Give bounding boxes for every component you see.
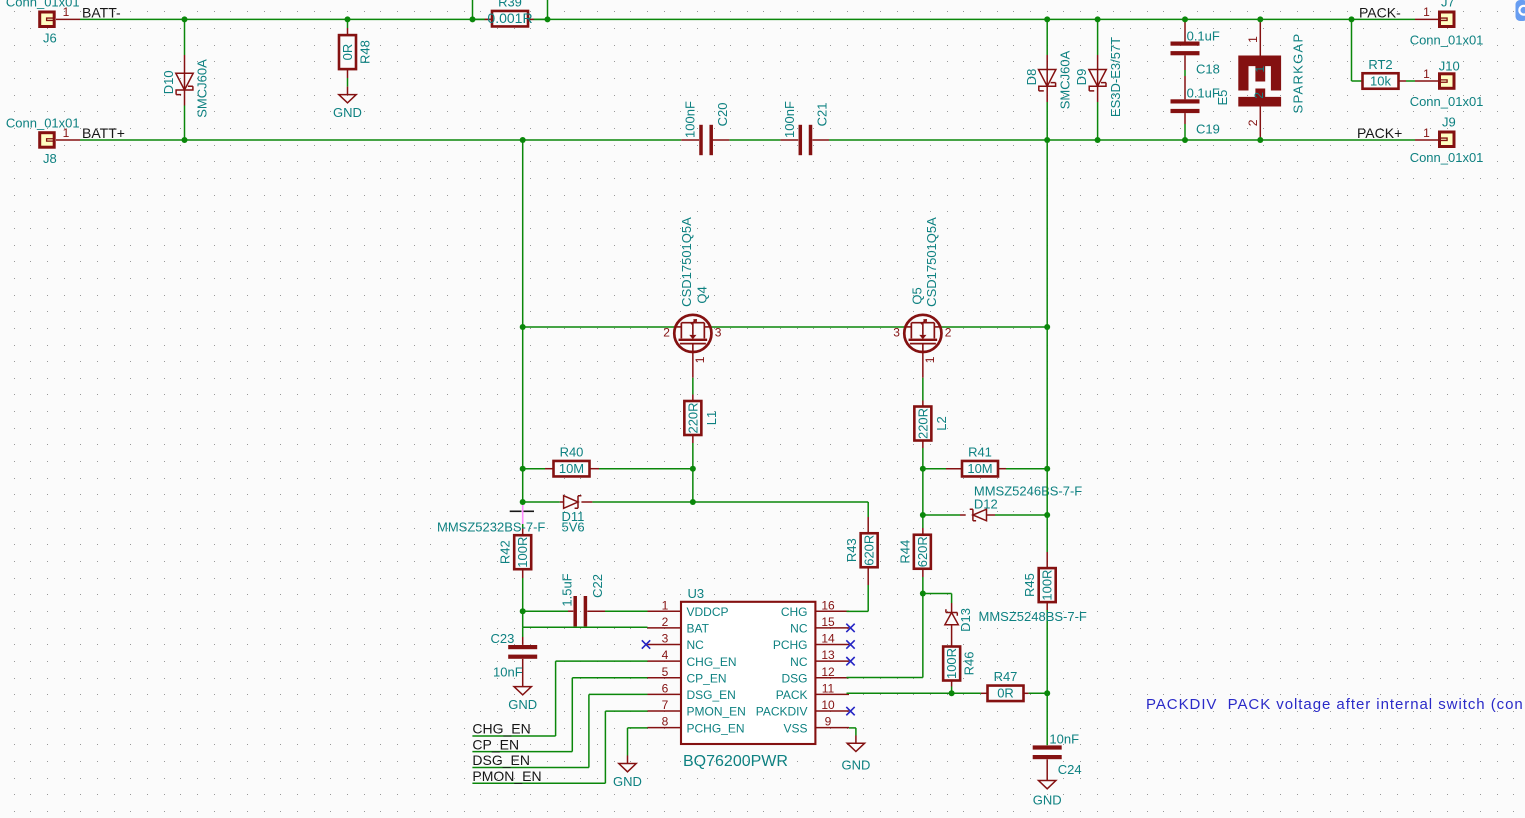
svg-text:13: 13 <box>821 648 835 662</box>
svg-text:1: 1 <box>63 126 70 140</box>
svg-text:CSD17501Q5A: CSD17501Q5A <box>679 217 694 307</box>
svg-text:C19: C19 <box>1196 121 1220 136</box>
svg-text:4: 4 <box>662 648 669 662</box>
svg-text:Q5: Q5 <box>909 287 924 304</box>
svg-text:J7: J7 <box>1441 0 1455 10</box>
svg-text:1: 1 <box>923 356 937 363</box>
svg-text:5V6: 5V6 <box>562 520 585 535</box>
svg-text:10: 10 <box>821 698 835 712</box>
svg-text:D9: D9 <box>1074 69 1089 86</box>
svg-text:SPARKGAP: SPARKGAP <box>1290 33 1305 114</box>
svg-text:10M: 10M <box>967 461 992 476</box>
svg-text:BAT: BAT <box>687 622 710 636</box>
svg-text:BQ76200PWR: BQ76200PWR <box>683 753 788 770</box>
svg-text:DSG: DSG <box>781 671 807 685</box>
svg-text:1: 1 <box>662 598 669 612</box>
svg-text:1: 1 <box>1423 126 1430 140</box>
svg-text:DSG_EN: DSG_EN <box>687 688 736 702</box>
svg-text:16: 16 <box>821 598 835 612</box>
svg-text:0.001R: 0.001R <box>487 10 532 26</box>
svg-text:R44: R44 <box>897 540 912 564</box>
svg-text:J8: J8 <box>43 151 57 166</box>
svg-text:R42: R42 <box>498 540 513 564</box>
svg-text:Conn_01x01: Conn_01x01 <box>1410 94 1484 109</box>
svg-text:15: 15 <box>821 615 835 629</box>
svg-text:NC: NC <box>790 655 808 669</box>
svg-text:1: 1 <box>1246 36 1260 43</box>
svg-text:CSD17501Q5A: CSD17501Q5A <box>924 217 939 307</box>
svg-text:10nF: 10nF <box>493 664 523 679</box>
svg-text:0.1uF: 0.1uF <box>1187 29 1220 44</box>
svg-text:GND: GND <box>333 105 362 120</box>
svg-text:7: 7 <box>662 698 669 712</box>
svg-text:620R: 620R <box>862 535 877 566</box>
svg-text:CP_EN: CP_EN <box>687 671 727 685</box>
svg-text:PCHG_EN: PCHG_EN <box>687 721 745 735</box>
svg-text:3: 3 <box>715 326 722 340</box>
svg-text:DSG_EN: DSG_EN <box>472 752 530 768</box>
svg-text:1: 1 <box>1423 67 1430 81</box>
svg-text:1: 1 <box>693 356 707 363</box>
svg-text:5: 5 <box>662 665 669 679</box>
svg-text:R41: R41 <box>968 445 992 460</box>
svg-text:L1: L1 <box>704 411 719 425</box>
svg-text:D13: D13 <box>958 608 973 632</box>
svg-text:PACK: PACK <box>776 688 808 702</box>
svg-text:J10: J10 <box>1439 59 1460 74</box>
svg-text:ES3D-E3/57T: ES3D-E3/57T <box>1108 37 1123 117</box>
svg-text:2: 2 <box>1246 119 1260 126</box>
svg-text:C20: C20 <box>715 103 730 127</box>
svg-text:R39: R39 <box>498 0 522 10</box>
svg-text:14: 14 <box>821 632 835 646</box>
svg-text:R40: R40 <box>560 445 584 460</box>
svg-text:PCHG: PCHG <box>773 638 808 652</box>
svg-text:Conn_01x01: Conn_01x01 <box>1410 32 1484 47</box>
svg-text:MMSZ5232BS-7-F: MMSZ5232BS-7-F <box>437 520 545 535</box>
svg-text:1: 1 <box>63 5 70 19</box>
svg-text:10k: 10k <box>1370 73 1391 88</box>
svg-text:3: 3 <box>893 326 900 340</box>
svg-text:PACK+: PACK+ <box>1357 125 1402 141</box>
svg-text:SMCJ60A: SMCJ60A <box>1058 50 1073 109</box>
svg-text:VDDCP: VDDCP <box>687 605 729 619</box>
svg-text:2: 2 <box>663 326 670 340</box>
svg-text:C18: C18 <box>1196 61 1220 76</box>
svg-text:NC: NC <box>790 622 808 636</box>
svg-text:3: 3 <box>662 632 669 646</box>
svg-text:D8: D8 <box>1024 69 1039 86</box>
svg-text:C21: C21 <box>815 103 830 127</box>
svg-text:PACK-: PACK- <box>1359 4 1401 20</box>
svg-text:1.5uF: 1.5uF <box>560 573 575 606</box>
svg-text:C23: C23 <box>491 631 515 646</box>
svg-text:9: 9 <box>825 715 832 729</box>
svg-text:11: 11 <box>822 681 835 695</box>
svg-text:Q4: Q4 <box>694 286 709 303</box>
svg-text:PACKDIV PACK voltage after in: PACKDIV PACK voltage after internal swit… <box>1146 696 1524 713</box>
svg-text:2: 2 <box>1252 92 1266 99</box>
svg-text:CHG_EN: CHG_EN <box>687 655 737 669</box>
svg-text:D10: D10 <box>161 70 176 94</box>
svg-text:10M: 10M <box>559 461 584 476</box>
svg-text:VSS: VSS <box>783 721 807 735</box>
svg-text:GND: GND <box>508 697 537 712</box>
svg-text:J6: J6 <box>43 30 57 45</box>
svg-text:0R: 0R <box>340 44 355 61</box>
svg-text:RT2: RT2 <box>1368 57 1392 72</box>
svg-text:MMSZ5248BS-7-F: MMSZ5248BS-7-F <box>979 609 1087 624</box>
svg-text:R45: R45 <box>1022 573 1037 597</box>
svg-text:Conn_01x01: Conn_01x01 <box>1410 150 1484 165</box>
svg-text:12: 12 <box>821 665 835 679</box>
svg-text:BATT-: BATT- <box>82 4 121 20</box>
svg-text:E5: E5 <box>1215 90 1230 106</box>
svg-text:PMON_EN: PMON_EN <box>687 705 746 719</box>
svg-text:2: 2 <box>662 615 669 629</box>
svg-text:0R: 0R <box>997 686 1014 701</box>
svg-text:R48: R48 <box>358 40 373 64</box>
svg-text:U3: U3 <box>688 586 705 601</box>
svg-text:CHG: CHG <box>781 605 808 619</box>
svg-text:R43: R43 <box>844 538 859 562</box>
svg-text:8: 8 <box>662 715 669 729</box>
svg-text:100R: 100R <box>944 648 959 679</box>
svg-text:C24: C24 <box>1058 762 1082 777</box>
svg-text:1: 1 <box>1423 5 1430 19</box>
svg-text:10nF: 10nF <box>1049 731 1079 746</box>
svg-text:J9: J9 <box>1442 114 1456 129</box>
svg-text:SMCJ60A: SMCJ60A <box>194 59 209 118</box>
svg-text:6: 6 <box>662 681 669 695</box>
svg-text:1: 1 <box>1253 66 1267 73</box>
svg-text:PACKDIV: PACKDIV <box>756 705 808 719</box>
svg-text:R46: R46 <box>962 652 977 676</box>
svg-text:BATT+: BATT+ <box>82 125 125 141</box>
svg-text:2: 2 <box>945 326 952 340</box>
svg-text:CP_EN: CP_EN <box>472 736 519 752</box>
svg-text:NC: NC <box>687 638 705 652</box>
svg-text:GND: GND <box>841 758 870 773</box>
svg-text:GND: GND <box>613 774 642 789</box>
svg-text:100R: 100R <box>1040 570 1055 601</box>
svg-text:220R: 220R <box>685 402 700 433</box>
svg-text:100R: 100R <box>515 537 530 568</box>
svg-text:CHG_EN: CHG_EN <box>472 721 530 737</box>
svg-text:D12: D12 <box>974 497 998 512</box>
svg-text:100nF: 100nF <box>782 101 797 138</box>
svg-text:220R: 220R <box>915 408 930 439</box>
svg-text:L2: L2 <box>934 416 949 430</box>
svg-text:R47: R47 <box>994 669 1018 684</box>
svg-text:C22: C22 <box>590 574 605 598</box>
svg-text:620R: 620R <box>915 536 930 567</box>
svg-text:GND: GND <box>1033 793 1062 808</box>
svg-text:PMON_EN: PMON_EN <box>472 768 541 784</box>
svg-text:100nF: 100nF <box>683 101 698 138</box>
